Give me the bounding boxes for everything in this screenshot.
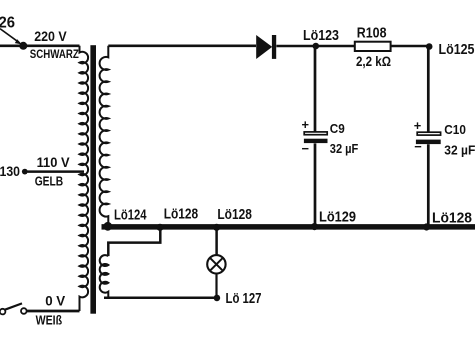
svg-text:Lö 127: Lö 127 bbox=[226, 291, 262, 307]
wire lower winding to node Lö127 bbox=[104, 297, 217, 300]
svg-text:+: + bbox=[414, 118, 422, 133]
node Lö124 bbox=[103, 222, 112, 231]
svg-text:220 V: 220 V bbox=[34, 28, 67, 44]
transformer T1 secondary winding (upper) bbox=[100, 46, 109, 225]
ground bus (common rail) bbox=[102, 224, 475, 230]
node Lö125 bbox=[426, 43, 433, 50]
svg-text:WEIß: WEIß bbox=[36, 313, 63, 327]
node Lö123 bbox=[313, 43, 320, 50]
wire Lö128 to lower secondary winding bbox=[108, 228, 160, 257]
svg-text:Lö128: Lö128 bbox=[217, 207, 252, 223]
transformer T1 primary winding bbox=[80, 46, 89, 311]
svg-text:32 µF: 32 µF bbox=[444, 142, 475, 157]
svg-text:−: − bbox=[414, 139, 422, 154]
node Lö128 (bus, right) bbox=[423, 223, 430, 230]
svg-text:Lö128: Lö128 bbox=[164, 207, 199, 223]
svg-text:2,2 kΩ: 2,2 kΩ bbox=[356, 53, 391, 69]
node Lö128 (bus, second) bbox=[213, 224, 220, 231]
wire 220V feed bbox=[0, 44, 80, 47]
svg-text:−: − bbox=[302, 141, 310, 156]
wire node Lö123 down to C9 bbox=[314, 46, 317, 132]
svg-text:130: 130 bbox=[0, 163, 20, 179]
svg-text:32 µF: 32 µF bbox=[330, 141, 359, 156]
wire Lö128 down to lamp bbox=[215, 227, 218, 254]
label Lö126 leader arrow bbox=[0, 29, 22, 45]
node Lö128 (bus, first) bbox=[156, 224, 163, 231]
diode D1 bbox=[256, 35, 276, 59]
switch S1 bbox=[0, 303, 27, 314]
svg-text:0 V: 0 V bbox=[45, 293, 66, 309]
svg-text:GELB: GELB bbox=[35, 175, 64, 189]
wire 0V bbox=[27, 310, 80, 313]
wire C10 down to bus bbox=[427, 144, 430, 225]
wire 110V tap bbox=[27, 170, 84, 173]
lamp bbox=[207, 255, 225, 273]
svg-text:26: 26 bbox=[0, 15, 15, 32]
wire diode to node Lö123 bbox=[276, 45, 315, 48]
wire node Lö125 down to C10 bbox=[427, 47, 430, 132]
transformer T1 secondary winding (lower) bbox=[100, 255, 109, 298]
svg-text:Lö129: Lö129 bbox=[319, 210, 356, 226]
svg-text:Lö128: Lö128 bbox=[432, 211, 472, 227]
svg-text:Lö125: Lö125 bbox=[439, 42, 475, 58]
svg-text:Lö124: Lö124 bbox=[114, 208, 147, 224]
capacitor C10 bbox=[416, 132, 441, 144]
capacitor C9 bbox=[304, 132, 328, 143]
wire lamp down to node Lö127 bbox=[215, 274, 217, 298]
resistor R108 bbox=[355, 42, 391, 51]
wire node Lö123 to R108 bbox=[316, 45, 355, 48]
wire secondary top to diode bbox=[108, 44, 256, 47]
svg-text:Lö123: Lö123 bbox=[303, 28, 339, 44]
svg-text:R108: R108 bbox=[357, 25, 387, 41]
node Lö127 bbox=[214, 295, 221, 302]
svg-text:SCHWARZ: SCHWARZ bbox=[30, 47, 79, 61]
svg-text:110 V: 110 V bbox=[37, 154, 71, 170]
wire C9 down to bus bbox=[314, 143, 317, 225]
wire R108 to node Lö125 bbox=[391, 45, 429, 48]
node Lö126 bbox=[19, 42, 27, 50]
svg-text:C9: C9 bbox=[330, 122, 345, 136]
svg-text:C10: C10 bbox=[444, 123, 466, 137]
node Lö129 bbox=[311, 223, 318, 230]
transformer core bbox=[90, 45, 96, 314]
node Lö130 bbox=[22, 169, 28, 175]
svg-text:+: + bbox=[302, 117, 310, 132]
